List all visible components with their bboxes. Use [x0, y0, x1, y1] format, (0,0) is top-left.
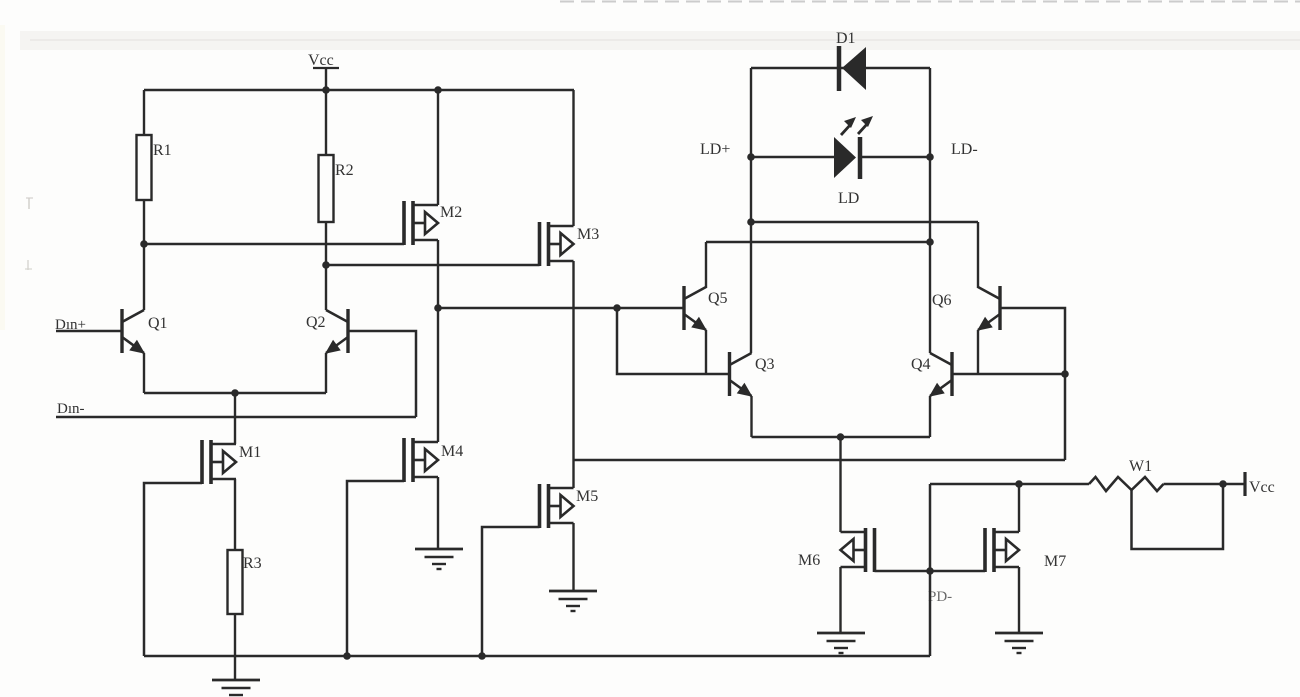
- resistor R1: [137, 135, 152, 200]
- wire LD+ lead: [751, 156, 834, 158]
- wire cross-couple y242: [706, 241, 930, 243]
- junction gates/PD- riser: [926, 567, 934, 575]
- junction M2-source/Q5-base wire: [434, 304, 442, 312]
- wire M2 source / M4 drain: [437, 240, 439, 442]
- scan artifact mark 1: [28, 198, 30, 209]
- ground under M6: [817, 632, 865, 635]
- transistor M5: [538, 484, 542, 528]
- wire cross-couple y222: [751, 221, 978, 223]
- svg-text:Q1: Q1: [148, 315, 168, 332]
- ground under M5: [549, 590, 597, 593]
- wire LD- lead: [860, 156, 930, 158]
- junction bridge/M6 drain: [837, 433, 845, 441]
- wire M1 drain lead: [234, 393, 236, 444]
- wire Q1 emitter lead: [143, 353, 145, 393]
- wire R1 top lead: [143, 90, 145, 135]
- wire M2 drain lead: [437, 90, 439, 205]
- wire Q4 emitter lead: [929, 396, 931, 437]
- wire M5 gate lead: [482, 527, 540, 656]
- wire M5 source lead: [572, 523, 574, 591]
- svg-text:M2: M2: [440, 204, 462, 221]
- resistor R3: [228, 550, 243, 614]
- wire LD- vertical: [929, 68, 931, 353]
- svg-text:R3: R3: [243, 555, 262, 572]
- junction Q4/Q6 base: [1061, 370, 1069, 378]
- wire bridge emitter rail: [752, 436, 931, 438]
- wire Q6 emitter lead: [977, 330, 979, 374]
- ground under M4: [415, 548, 463, 551]
- wire Q2 emitter lead: [325, 353, 327, 393]
- svg-text:R2: R2: [335, 162, 354, 179]
- svg-text:PD-: PD-: [928, 589, 952, 605]
- junction LD+/vertical: [747, 153, 755, 161]
- wire M1 source to R3: [234, 479, 236, 550]
- svg-text:M1: M1: [239, 444, 261, 461]
- svg-text:Q6: Q6: [932, 292, 952, 309]
- node ground rail bottom: [144, 655, 930, 657]
- transistor M6: [873, 528, 877, 572]
- transistor Q6: [998, 286, 1001, 330]
- wire M1 gate lead: [144, 483, 202, 656]
- LD light arrow 1: [841, 124, 851, 135]
- transistor M3: [538, 222, 542, 266]
- transistor M2: [402, 201, 406, 245]
- resistor W1 zigzag: [1089, 477, 1164, 491]
- junction y222 on LD+ vertical: [747, 218, 755, 226]
- transistor Q2: [346, 309, 349, 353]
- wire Q2 base to Din-: [348, 331, 416, 417]
- wire Q5 emitter lead: [705, 330, 707, 374]
- wire M7 drain lead: [1018, 484, 1020, 532]
- scan artifact mark 2: [27, 260, 29, 270]
- wire branch down to Q3 base: [617, 308, 730, 374]
- node Vcc top rail: [144, 89, 574, 91]
- transistor Q5: [682, 286, 685, 330]
- Vcc terminal right: [1243, 472, 1246, 496]
- svg-text:D1: D1: [836, 30, 856, 47]
- junction Vcc/R2: [322, 86, 330, 94]
- wire R2 top lead: [325, 90, 327, 155]
- svg-text:Q4: Q4: [911, 356, 931, 373]
- junction M7 drain/feed: [1015, 480, 1023, 488]
- svg-text:Q3: Q3: [755, 356, 775, 373]
- scan texture band: [20, 31, 1300, 50]
- wire Q4 base lead: [952, 373, 1065, 375]
- svg-text:LD-: LD-: [951, 141, 978, 158]
- svg-text:W1: W1: [1129, 458, 1152, 475]
- wire feed to W1: [930, 483, 1089, 485]
- svg-text:LD: LD: [838, 190, 859, 207]
- wire PD- riser: [929, 484, 932, 656]
- wire M4 source lead: [437, 477, 439, 549]
- junction emitter-rail/M1 drain: [231, 389, 239, 397]
- transistor M4: [402, 438, 406, 482]
- wire D1 anode-cathode rail: [751, 67, 930, 69]
- transistor M1: [200, 440, 204, 484]
- svg-text:Q2: Q2: [306, 314, 326, 331]
- wire output to Q4/Q6 bases: [574, 459, 1066, 461]
- wire to M3 gate: [326, 264, 540, 266]
- transistor Q1: [120, 309, 123, 353]
- wire Q5 collector lead: [705, 242, 707, 288]
- wire Q3 emitter lead: [750, 396, 752, 437]
- junction y242 on LD- vertical: [926, 238, 934, 246]
- svg-text:Vcc: Vcc: [308, 52, 334, 69]
- wire LD+ vertical: [750, 68, 752, 353]
- junction R1/base-rail: [140, 240, 148, 248]
- junction wiper/Vcc feed: [1219, 480, 1227, 488]
- junction top-rail/M2 drain: [434, 86, 442, 94]
- scan artifact top dashed line: [560, 1, 1300, 3]
- wire Q6 base run: [1000, 308, 1065, 460]
- junction R2/M3-gate wire: [322, 261, 330, 269]
- svg-text:R1: R1: [153, 142, 172, 159]
- svg-text:Dın-: Dın-: [57, 401, 85, 417]
- wire M6 drain lead: [839, 437, 841, 532]
- wire Q6 collector lead: [977, 222, 979, 288]
- diode D1: [837, 46, 842, 91]
- wire emitter rail: [144, 392, 326, 394]
- svg-text:M3: M3: [577, 226, 599, 243]
- LD light arrow 2: [858, 123, 868, 134]
- scan artifact left strip: [0, 25, 5, 330]
- wire R1 bottom to Q1 collector: [143, 200, 145, 310]
- svg-text:M5: M5: [576, 488, 598, 505]
- wire R2 bottom to Q2 collector: [325, 222, 327, 310]
- wire W1 wiper loop: [1132, 484, 1224, 549]
- resistor R2: [319, 155, 334, 222]
- svg-text:Vcc: Vcc: [1249, 479, 1275, 496]
- wire M4 gate lead: [347, 481, 404, 656]
- wire M6 source lead: [839, 567, 841, 633]
- wire M2 source to Q5 base: [438, 307, 684, 309]
- transistor M7: [983, 528, 987, 572]
- wire M7 source lead: [1018, 567, 1020, 633]
- wire W1 to Vcc: [1164, 483, 1246, 485]
- svg-text:LD+: LD+: [700, 141, 730, 158]
- svg-text:M4: M4: [441, 443, 463, 460]
- junction bottom/M4 gate: [343, 652, 351, 660]
- svg-text:M7: M7: [1044, 553, 1066, 570]
- scan artifact faint top line: [30, 39, 1300, 41]
- transistor Q3: [728, 352, 731, 396]
- junction bottom/M5 gate: [478, 652, 486, 660]
- wire R3 bottom lead: [234, 614, 236, 680]
- laser diode LD: [834, 137, 856, 178]
- wire base rail to M2 gate: [144, 243, 404, 245]
- svg-text:M6: M6: [798, 552, 820, 569]
- wire M6/M7 gate rail: [875, 570, 986, 572]
- ground under R3: [212, 679, 260, 682]
- transistor Q4: [950, 352, 953, 396]
- wire M3 source to M5 drain: [572, 261, 574, 488]
- wire M3 drain lead: [572, 90, 574, 226]
- ground under M7: [995, 632, 1043, 635]
- junction LD-/vertical: [926, 153, 934, 161]
- svg-text:Q5: Q5: [708, 290, 728, 307]
- junction branch to Q3 base: [613, 304, 621, 312]
